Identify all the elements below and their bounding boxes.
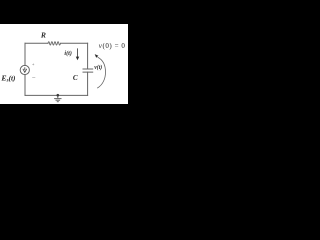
wire left lower — [24, 75, 26, 96]
ground — [54, 95, 61, 101]
svg-text:C: C — [73, 74, 78, 82]
junction dot — [57, 94, 60, 97]
svg-text:R: R — [40, 31, 46, 40]
resistor R — [48, 42, 60, 45]
wire right upper — [87, 43, 89, 69]
voltage arc arrowhead — [95, 54, 99, 58]
wire top-right — [61, 42, 88, 44]
svg-text:v(t): v(t) — [94, 64, 102, 71]
svg-text:+: + — [32, 62, 35, 67]
current arrow i(t) — [76, 48, 79, 60]
svg-text:–: – — [31, 74, 36, 80]
wire left upper — [24, 43, 26, 65]
voltage source Es — [20, 65, 29, 74]
svg-text:v(0) = 0: v(0) = 0 — [99, 42, 126, 50]
wire top-left — [25, 42, 48, 44]
svg-text:Es(t): Es(t) — [0, 73, 15, 83]
capacitor C — [83, 69, 93, 72]
svg-text:i(t): i(t) — [64, 50, 72, 57]
wire bottom — [25, 94, 88, 96]
voltage arc v(t) — [98, 57, 106, 88]
wire right lower — [87, 72, 89, 95]
source arrow symbol — [23, 67, 27, 72]
